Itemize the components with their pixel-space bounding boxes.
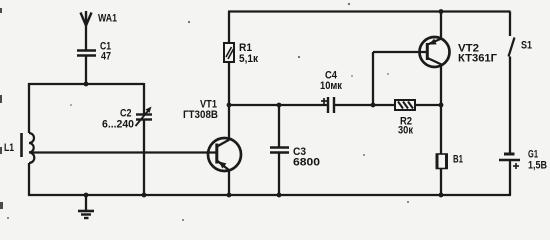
wire S1 to G1 <box>509 57 511 154</box>
wire base riser <box>372 52 374 105</box>
capacitor C2 variable <box>136 107 153 127</box>
wire G1 to bottom rail <box>509 160 511 195</box>
svg-text:1,5В: 1,5В <box>528 160 547 172</box>
wire C2 bottom <box>143 120 145 196</box>
node VT2 base junction <box>371 103 376 108</box>
antenna WA1 <box>81 11 92 26</box>
resistor R2 <box>395 100 415 110</box>
wire collector node to B1 <box>440 105 442 154</box>
transistor VT1 <box>208 138 241 171</box>
wire mid collector to C4 <box>229 104 327 106</box>
node ground junction <box>84 193 89 198</box>
svg-text:5,1к: 5,1к <box>239 53 258 65</box>
svg-text:ГТ308В: ГТ308В <box>183 109 218 121</box>
node VT1 collector junction <box>227 103 232 108</box>
wire L1 top <box>28 83 30 133</box>
node antenna tank junction <box>84 82 89 87</box>
wire L1 bottom <box>28 163 30 196</box>
wire C3 bottom <box>278 153 280 196</box>
svg-text:6800: 6800 <box>293 157 320 169</box>
wire VT1 emitter <box>228 170 230 196</box>
node C3 bottom rail <box>277 193 282 198</box>
svg-text:S1: S1 <box>521 40 532 52</box>
wire riser to VT2 base <box>373 51 427 53</box>
svg-text:WA1: WA1 <box>98 13 117 25</box>
wire bottom rail <box>28 194 511 196</box>
wire C4 to R2 <box>334 104 395 106</box>
wire L1 tap to VT1 base <box>30 151 217 153</box>
wire antenna to C1 <box>85 24 87 50</box>
svg-text:B1: B1 <box>453 154 463 166</box>
capacitor C4 polarized <box>321 97 334 113</box>
wire VT1 collector <box>228 105 230 140</box>
capacitor C3 <box>270 148 289 153</box>
svg-text:L1: L1 <box>4 142 14 154</box>
wire C1 to tank top <box>85 56 87 84</box>
node VT1 emitter bottom rail <box>227 193 232 198</box>
node C3 top <box>277 103 282 108</box>
wire VT2 emitter to top rail <box>440 12 442 40</box>
transistor VT2 <box>420 37 450 67</box>
wire VT2 collector <box>440 64 442 105</box>
svg-text:47: 47 <box>101 51 111 63</box>
wire R2 to collector node <box>415 104 441 106</box>
wire B1 to bottom rail <box>440 169 442 197</box>
wire R1 to collector node <box>228 62 230 105</box>
svg-text:10мк: 10мк <box>320 80 342 92</box>
svg-text:30к: 30к <box>398 125 413 137</box>
wire tank top <box>28 83 144 85</box>
earphone B1 <box>437 154 448 170</box>
wire C3 top <box>278 105 280 147</box>
ground <box>78 195 94 218</box>
svg-text:6...240: 6...240 <box>102 119 134 131</box>
node VT2 collector junction <box>439 103 444 108</box>
capacitor C1 <box>77 51 96 56</box>
resistor R1 <box>224 12 234 63</box>
wire top rail <box>228 10 511 12</box>
wire C2 top <box>143 83 145 114</box>
node C2 bottom rail <box>142 193 147 198</box>
svg-text:КТ361Г: КТ361Г <box>458 53 498 65</box>
inductor L1 <box>22 133 35 163</box>
node VT2 emitter top rail <box>439 9 444 14</box>
switch S1 <box>509 12 515 57</box>
node B1 bottom rail <box>439 193 444 198</box>
battery G1 <box>499 154 520 169</box>
